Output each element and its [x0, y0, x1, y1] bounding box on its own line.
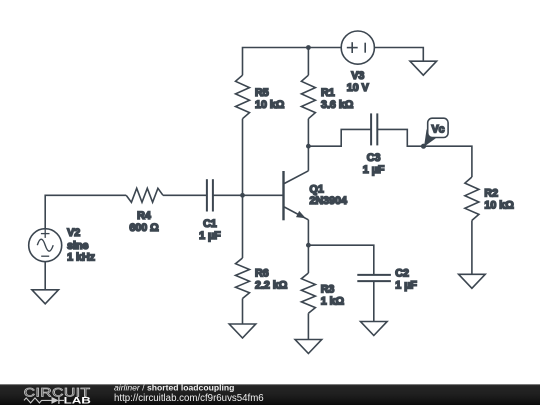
- svg-text:1 µF: 1 µF: [199, 230, 221, 242]
- logo resistor squiggle: [24, 398, 52, 403]
- ground C2: [361, 322, 388, 336]
- capacitor C2: [357, 274, 391, 276]
- wire base node to Q1 base: [243, 194, 284, 196]
- svg-text:http://circuitlab.com/cf9r6uvs: http://circuitlab.com/cf9r6uvs54fm6: [114, 393, 264, 404]
- resistor R6: [236, 258, 250, 299]
- svg-text:3.6 kΩ: 3.6 kΩ: [321, 99, 354, 111]
- svg-text:R6: R6: [255, 268, 269, 280]
- svg-text:R1: R1: [321, 87, 335, 99]
- wire R5 bottom to base node: [242, 119, 244, 196]
- capacitor C3: [370, 113, 372, 145]
- voltage source V3: [341, 31, 374, 64]
- node base junction: [240, 193, 245, 198]
- wire C3 to Vc node: [377, 129, 423, 146]
- wire C2 to ground: [373, 281, 375, 321]
- svg-text:R3: R3: [321, 284, 335, 296]
- svg-text:Vc: Vc: [431, 123, 444, 135]
- wire R4 to C1: [163, 194, 207, 196]
- wire R3 to ground: [307, 313, 309, 339]
- logo diode: [52, 397, 59, 404]
- svg-text:C2: C2: [395, 268, 409, 280]
- wire collector node to C3: [308, 129, 371, 146]
- wire top rail: [243, 48, 342, 76]
- wire collector vertical: [307, 146, 309, 171]
- wire R6 to ground: [242, 299, 244, 325]
- wire V2 top to input wire: [45, 195, 126, 228]
- flag Vc: [424, 129, 436, 147]
- node Vc junction: [421, 144, 426, 149]
- wire base node down to R6: [242, 195, 244, 258]
- capacitor C1: [206, 179, 208, 211]
- svg-text:10 V: 10 V: [347, 82, 370, 94]
- wire emitter node to C2: [308, 245, 373, 275]
- wire C1 to base node: [213, 194, 243, 196]
- svg-text:1 kΩ: 1 kΩ: [321, 296, 345, 308]
- svg-text:C1: C1: [203, 218, 217, 230]
- wire V2 bottom to ground: [44, 262, 46, 290]
- transistor Q1: [282, 171, 284, 220]
- wire R1 bottom to collector node: [307, 119, 309, 147]
- voltage source V2: [29, 229, 62, 262]
- svg-text:V2: V2: [67, 227, 80, 239]
- footer bar: [0, 384, 540, 405]
- resistor R4: [126, 188, 163, 202]
- wire V3 to ground: [374, 48, 423, 62]
- svg-text:600 Ω: 600 Ω: [129, 222, 159, 234]
- svg-text:C3: C3: [367, 152, 381, 164]
- node top rail junction: [306, 45, 311, 50]
- node emitter junction: [306, 243, 311, 248]
- resistor R1: [301, 75, 315, 119]
- svg-text:LAB: LAB: [64, 395, 92, 405]
- ground V3: [410, 61, 437, 75]
- svg-text:R4: R4: [137, 210, 151, 222]
- svg-text:10 kΩ: 10 kΩ: [255, 99, 285, 111]
- resistor R2: [465, 177, 479, 220]
- svg-text:1 µF: 1 µF: [395, 280, 417, 292]
- svg-text:R2: R2: [484, 188, 498, 200]
- svg-text:10 kΩ: 10 kΩ: [484, 200, 514, 212]
- resistor R3: [301, 273, 315, 313]
- svg-text:2N3904: 2N3904: [310, 195, 347, 207]
- svg-text:2.2 kΩ: 2.2 kΩ: [255, 280, 288, 292]
- svg-text:1 kHz: 1 kHz: [67, 252, 95, 264]
- svg-text:airliner / shorted loadcouplin: airliner / shorted loadcoupling: [114, 383, 234, 393]
- ground R2: [459, 274, 486, 288]
- node collector junction: [306, 144, 311, 149]
- wire R1 top: [307, 48, 309, 76]
- svg-text:1 µF: 1 µF: [363, 164, 385, 176]
- wire Vc node to R2: [424, 146, 472, 177]
- svg-text:Q1: Q1: [310, 184, 324, 196]
- ground R3: [295, 340, 322, 354]
- wire emitter node to R3: [307, 245, 309, 273]
- wire emitter vertical: [307, 220, 309, 245]
- svg-text:sine: sine: [67, 240, 88, 252]
- wire R2 to ground: [471, 220, 473, 274]
- ground V2: [32, 290, 59, 304]
- ground R6: [229, 324, 256, 338]
- svg-text:V3: V3: [351, 70, 364, 82]
- resistor R5: [236, 75, 250, 119]
- svg-text:R5: R5: [255, 87, 269, 99]
